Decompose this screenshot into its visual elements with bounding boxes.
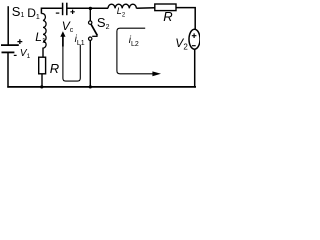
capacitor minus label [56, 12, 60, 14]
label V2 [175, 37, 187, 52]
capacitor plus label [70, 10, 74, 14]
wire S2 bottom to bottom wire [89, 41, 91, 87]
label L2 [117, 7, 125, 19]
wire R box to bottom [41, 74, 43, 87]
battery V1 short plate [2, 51, 15, 53]
top wire junction to L2 [90, 7, 108, 9]
label R left [50, 62, 59, 75]
junction dot bottom S2 branch [89, 85, 92, 88]
junction dot top (node) [89, 7, 92, 10]
label L1 [35, 31, 46, 45]
switch S2 blade [91, 24, 97, 35]
battery plus label [17, 39, 22, 44]
label S2 [97, 16, 110, 31]
top wire left section with corner into L1 branch [41, 8, 62, 13]
label i_L2 [129, 36, 139, 48]
label V1 [20, 49, 30, 61]
label S1 [12, 5, 25, 19]
resistor R (top, horizontal box) [155, 4, 176, 11]
V2 minus sign [192, 45, 196, 47]
label R top [163, 10, 172, 23]
i_L2 current loop (thin C path) [117, 28, 153, 74]
VC voltage arrow (bold, pointing up) [62, 36, 64, 47]
wire left branch upper (S1/D1 branch) [7, 6, 9, 44]
junction dot bottom-left branch [40, 85, 43, 88]
switch S2 bottom terminal circle [89, 37, 92, 40]
battery V1 long plate [1, 44, 19, 46]
resistor R (left, vertical box) [39, 57, 46, 74]
label VC [62, 20, 74, 34]
top wire cap to junction [68, 7, 91, 9]
inductor L1 (vertical coil) [41, 13, 46, 48]
source V2 ellipse [189, 29, 200, 49]
capacitor C left plate [62, 3, 64, 16]
switch S2 contact bar [92, 35, 97, 37]
top wire L2 to R box [136, 7, 155, 10]
V2 plus sign [192, 33, 197, 38]
wire junction to S2 top terminal [89, 8, 91, 20]
battery minus label [14, 54, 17, 56]
wire L1 to R box [42, 48, 44, 58]
switch S2 top terminal circle [89, 21, 92, 24]
label i_L1 [75, 35, 85, 47]
capacitor C right plate [66, 3, 68, 16]
label D1 [27, 7, 40, 21]
i_L2 arrowhead [152, 71, 161, 76]
wire V2 bottom to bottom-right corner [194, 49, 196, 88]
bottom wire [7, 86, 196, 88]
top wire R box to right corner, down right edge [176, 8, 195, 30]
i_L1 current loop (thin U path) [63, 44, 80, 81]
inductor L2 (horizontal coil, 4 bumps) [108, 4, 136, 8]
wire left branch lower [7, 52, 9, 87]
